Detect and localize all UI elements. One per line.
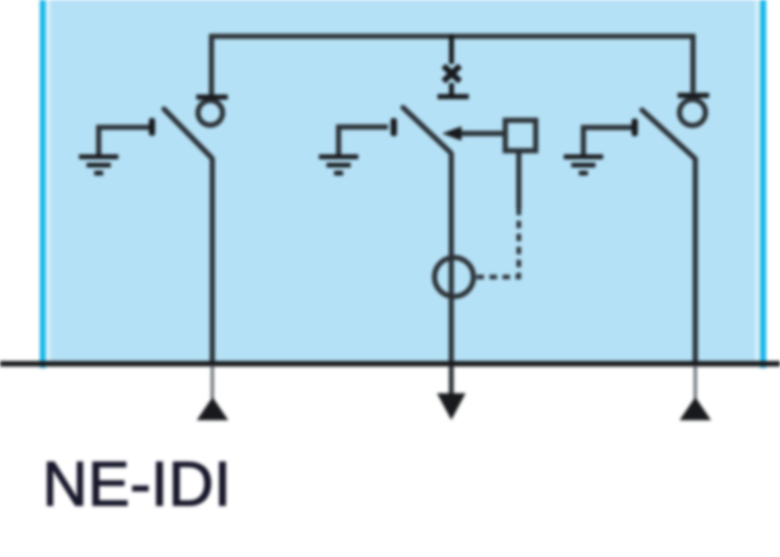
svg-text:NE-IDI: NE-IDI	[42, 450, 231, 520]
